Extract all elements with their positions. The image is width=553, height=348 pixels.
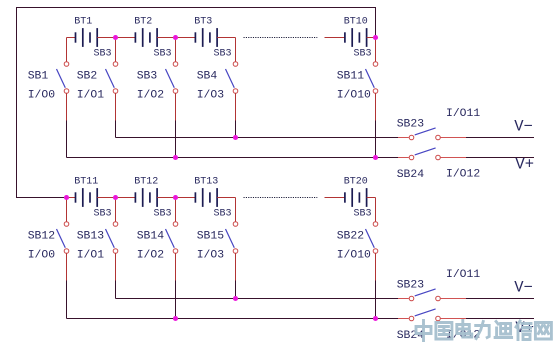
svg-text:BT20: BT20 <box>344 176 368 187</box>
wire <box>440 318 466 320</box>
wire <box>66 121 68 158</box>
wire <box>157 37 195 39</box>
junction <box>113 35 118 40</box>
svg-text:SB23: SB23 <box>397 280 425 292</box>
battery BT1 <box>76 28 98 47</box>
svg-text:SB4: SB4 <box>197 70 218 82</box>
wire <box>66 253 68 280</box>
junction <box>173 155 178 160</box>
junction <box>173 316 178 321</box>
svg-text:SB3: SB3 <box>214 48 232 59</box>
battery BT13 <box>195 188 217 207</box>
wire <box>175 121 177 158</box>
svg-text:BT13: BT13 <box>194 176 218 187</box>
switch SB24 <box>409 309 440 321</box>
wire <box>375 198 377 222</box>
svg-text:I/O11: I/O11 <box>446 269 480 281</box>
svg-text:I/O3: I/O3 <box>197 249 225 261</box>
battery BT10 <box>345 28 367 47</box>
svg-text:I/O1: I/O1 <box>77 249 105 261</box>
svg-text:I/O0: I/O0 <box>28 249 56 261</box>
wire <box>115 281 117 299</box>
svg-text:SB24: SB24 <box>397 330 425 342</box>
wire <box>66 198 68 222</box>
wire <box>67 37 76 39</box>
svg-text:I/O3: I/O3 <box>197 89 225 101</box>
wire: bus to SB24 <box>67 318 399 320</box>
svg-text:SB3: SB3 <box>94 208 112 219</box>
wire <box>66 93 68 120</box>
wire <box>115 93 117 120</box>
svg-text:SB2: SB2 <box>77 70 98 82</box>
wire <box>466 157 534 159</box>
svg-text:V+: V+ <box>515 155 534 173</box>
svg-text:BT12: BT12 <box>134 176 158 187</box>
wire <box>67 197 76 199</box>
wire <box>325 197 345 199</box>
wire <box>235 253 237 280</box>
wire <box>217 197 235 199</box>
wire <box>375 38 377 62</box>
svg-text:SB3: SB3 <box>94 48 112 59</box>
junction <box>233 296 238 301</box>
wire <box>440 137 466 139</box>
battery BT20 <box>345 188 367 207</box>
junction <box>233 135 238 140</box>
wire <box>66 281 68 319</box>
junction <box>373 35 378 40</box>
switch SB13 <box>106 222 118 254</box>
junction <box>173 195 178 200</box>
wire <box>235 38 237 62</box>
wire <box>235 198 237 222</box>
switch SB3 <box>166 62 178 94</box>
junction <box>373 155 378 160</box>
wire <box>97 197 135 199</box>
wire <box>466 137 534 139</box>
wire <box>235 93 237 120</box>
wire <box>367 197 376 199</box>
wire <box>115 38 117 62</box>
junction <box>113 195 118 200</box>
wire <box>325 37 345 39</box>
svg-text:SB13: SB13 <box>77 230 105 242</box>
svg-text:BT1: BT1 <box>74 16 92 27</box>
wire: omitted batteries <box>244 37 318 39</box>
svg-text:SB1: SB1 <box>28 70 49 82</box>
switch SB15 <box>226 222 238 254</box>
wire <box>157 197 195 199</box>
switch SB1 <box>57 62 69 94</box>
svg-text:SB3: SB3 <box>154 48 172 59</box>
wire <box>97 37 135 39</box>
wire <box>175 198 177 222</box>
wire <box>175 281 177 319</box>
svg-text:V−: V− <box>514 118 533 136</box>
wire <box>440 157 466 159</box>
svg-text:SB24: SB24 <box>397 169 425 181</box>
wire <box>115 198 117 222</box>
wire <box>115 121 117 138</box>
svg-text:SB3: SB3 <box>137 70 158 82</box>
wire <box>235 121 237 138</box>
svg-text:SB3: SB3 <box>354 48 372 59</box>
svg-text:I/O10: I/O10 <box>337 249 371 261</box>
wire <box>115 253 117 280</box>
svg-text:I/O12: I/O12 <box>446 168 480 180</box>
svg-text:SB23: SB23 <box>397 119 425 131</box>
wire <box>375 281 377 319</box>
wire <box>440 298 466 300</box>
svg-text:I/O2: I/O2 <box>137 89 165 101</box>
svg-text:SB15: SB15 <box>197 230 225 242</box>
svg-text:SB22: SB22 <box>337 230 365 242</box>
svg-text:SB12: SB12 <box>28 230 56 242</box>
wire: series link BT10+ to BT11- <box>17 8 376 198</box>
battery BT3 <box>195 28 217 47</box>
wire <box>367 37 376 39</box>
switch SB2 <box>106 62 118 94</box>
wire <box>175 38 177 62</box>
svg-text:SB3: SB3 <box>214 208 232 219</box>
wire: omitted batteries <box>244 197 318 199</box>
svg-text:I/O11: I/O11 <box>446 108 480 120</box>
wire <box>375 121 377 158</box>
wire <box>175 253 177 280</box>
switch SB23 <box>409 128 440 140</box>
wire <box>375 93 377 120</box>
switch SB24 <box>409 148 440 160</box>
wire <box>375 253 377 280</box>
switch SB4 <box>226 62 238 94</box>
junction <box>64 195 69 200</box>
battery BT2 <box>135 28 157 47</box>
switch SB11 <box>366 62 378 94</box>
wire <box>466 318 534 320</box>
svg-text:I/O10: I/O10 <box>337 89 371 101</box>
watermark <box>416 321 551 341</box>
svg-text:I/O2: I/O2 <box>137 249 165 261</box>
switch SB22 <box>366 222 378 254</box>
battery BT12 <box>135 188 157 207</box>
svg-text:SB11: SB11 <box>337 70 365 82</box>
wire <box>175 93 177 120</box>
wire: bus to SB23 <box>116 298 399 300</box>
wire <box>466 298 534 300</box>
svg-text:BT10: BT10 <box>344 16 368 27</box>
svg-text:BT3: BT3 <box>194 16 212 27</box>
svg-text:I/O1: I/O1 <box>77 89 105 101</box>
svg-text:V−: V− <box>514 279 533 297</box>
svg-text:SB3: SB3 <box>354 208 372 219</box>
switch SB14 <box>166 222 178 254</box>
svg-text:SB14: SB14 <box>137 230 165 242</box>
wire: bus to SB23 <box>116 137 399 139</box>
wire <box>235 281 237 299</box>
junction <box>173 35 178 40</box>
switch SB23 <box>409 289 440 301</box>
switch SB12 <box>57 222 69 254</box>
junction <box>373 316 378 321</box>
wire: bus to SB24 <box>67 157 399 159</box>
battery BT11 <box>76 188 98 207</box>
svg-text:BT11: BT11 <box>74 176 98 187</box>
wire <box>66 38 68 62</box>
svg-text:SB3: SB3 <box>154 208 172 219</box>
svg-text:I/O0: I/O0 <box>28 89 56 101</box>
svg-text:BT2: BT2 <box>134 16 152 27</box>
wire <box>217 37 235 39</box>
